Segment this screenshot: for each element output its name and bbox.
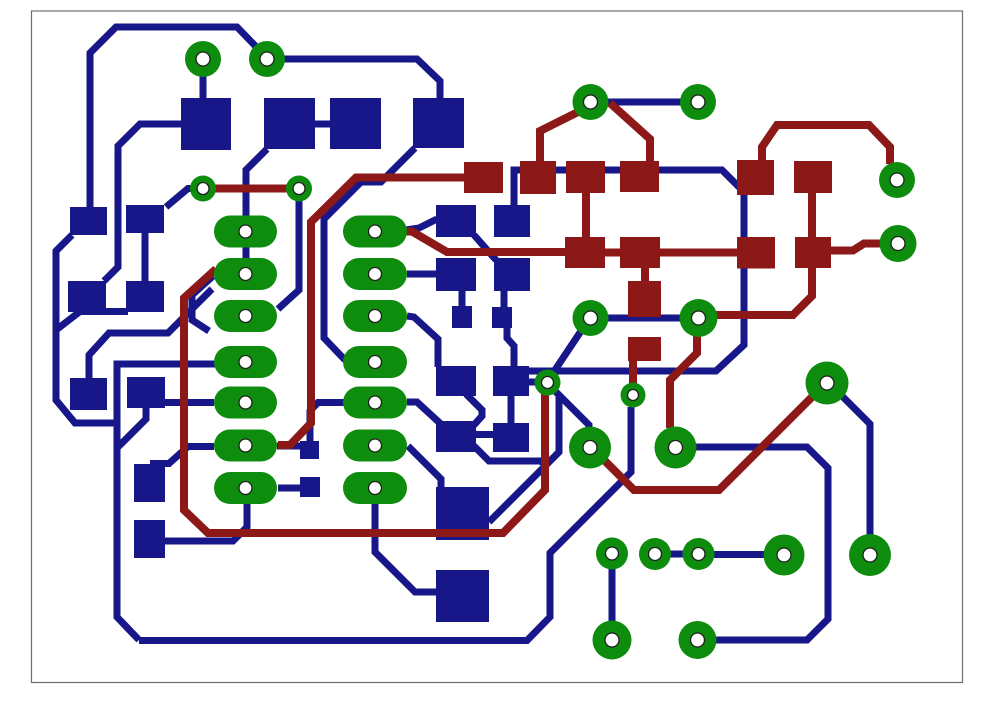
wire oval row2 to oval row3 loop xyxy=(192,276,213,331)
wire link M7-M9 xyxy=(466,394,482,426)
wire A3 stub to oval row2 xyxy=(89,289,212,378)
hole p5 xyxy=(691,633,705,647)
red pad R2B xyxy=(620,237,660,268)
hole oval L4 xyxy=(239,356,252,369)
DIP pad oval mid col row5 xyxy=(343,387,407,419)
round pad P4 xyxy=(680,84,716,120)
wire via1small to pad G bottom xyxy=(555,391,589,432)
round pad P2 xyxy=(249,41,285,77)
hole P9 xyxy=(890,173,904,187)
wire mid oval row7 to G2 xyxy=(375,501,438,592)
smd pad M10 xyxy=(493,423,529,452)
wire red R1F to R2D xyxy=(808,193,816,238)
hole oval L7 xyxy=(239,482,252,495)
hole P10 xyxy=(891,237,905,251)
via V11 xyxy=(535,370,561,396)
wire top-left bus to pad P2 xyxy=(90,27,266,209)
round pad P8 xyxy=(680,299,718,337)
DIP pad oval left col row1 xyxy=(214,216,277,248)
hole oval M4 xyxy=(369,356,382,369)
round pad G1g xyxy=(569,427,611,469)
wire oval row1 to row2 stub xyxy=(243,238,250,262)
round pad P1 xyxy=(185,41,221,77)
smd pad S3 xyxy=(330,98,381,149)
wire S2 to oval row1 xyxy=(246,149,267,225)
red pad R2C xyxy=(737,237,775,269)
round pad P3 xyxy=(573,84,609,120)
wire pad B up to pad F xyxy=(841,395,870,536)
wire p2 to p3 xyxy=(655,551,698,558)
wire M3 to m5 xyxy=(459,291,466,308)
wire link M8-M10 xyxy=(508,395,515,424)
wire mid oval row1 to M1 xyxy=(406,219,437,230)
smd pad S4 xyxy=(413,98,464,148)
wire mid oval row5 join xyxy=(310,403,344,444)
smd pad M4 xyxy=(494,258,530,291)
wire red R1C to R2A xyxy=(582,193,590,238)
smd pad C1 xyxy=(134,464,165,502)
hole P3 xyxy=(584,95,598,109)
wire B2 bottom horizontal xyxy=(56,312,128,331)
wire S1 west to A2 xyxy=(104,124,181,281)
smd pad M8 xyxy=(493,366,529,396)
wire S4 to n1 small square xyxy=(324,148,415,360)
smd pad C2 xyxy=(134,520,165,558)
smd pad B2 xyxy=(126,281,164,312)
DIP pad oval left col row2 xyxy=(214,258,277,290)
smd pad G2 xyxy=(436,570,489,622)
hole P4 xyxy=(691,95,705,109)
wire top bus y169 with verticals xyxy=(514,170,744,371)
wire via1big to via2big xyxy=(607,315,681,322)
wire pad P1 stub to S1 xyxy=(200,75,207,100)
round pad p5 xyxy=(679,621,717,659)
red rect RR1 xyxy=(628,281,661,317)
round pad P10 xyxy=(880,225,917,262)
red pad R1E xyxy=(737,160,774,195)
round pad G2g xyxy=(655,427,697,469)
round pad A xyxy=(764,535,805,576)
hole p1 xyxy=(606,547,619,560)
wire B3 stub diagonal xyxy=(117,408,146,448)
hole V11 xyxy=(542,377,554,389)
wire pad H east loop to p5 xyxy=(695,447,828,640)
smd pad n1 xyxy=(300,441,319,459)
hole V5 xyxy=(197,183,209,195)
red pad R1A xyxy=(464,162,503,193)
DIP pad oval left col row5 xyxy=(214,387,277,419)
smd pad M7 xyxy=(436,366,476,396)
smd pad G1 xyxy=(436,487,489,540)
round pad p4 xyxy=(593,621,632,660)
hole F xyxy=(820,376,834,390)
wire oval row7 to n2 xyxy=(278,485,302,492)
round pad p2 xyxy=(639,538,671,570)
red rect RR2 xyxy=(628,337,661,361)
wire pad G1g branch down to G1 right edge xyxy=(489,396,559,522)
wire bottom bus to via2small xyxy=(139,407,631,641)
wire mid oval row3 to M7 xyxy=(407,316,438,367)
wire red R2B to rect RR1 xyxy=(641,267,649,282)
DIP pad oval mid col row2 xyxy=(343,258,407,290)
wire C2 east horizontal xyxy=(165,502,247,541)
hole oval M5 xyxy=(369,396,382,409)
DIP pad oval mid col row3 xyxy=(343,300,407,332)
wire p1 to p4 xyxy=(609,569,616,622)
smd pad M1 xyxy=(436,205,476,237)
wire oval row6 right to n1 xyxy=(277,443,302,450)
DIP pad oval left col row4 xyxy=(214,346,277,378)
wire red pad P8 to pad G2g xyxy=(670,335,697,428)
hole A xyxy=(777,548,791,562)
DIP pad oval mid col row1 xyxy=(343,216,407,248)
hole oval L6 xyxy=(239,439,252,452)
wire via1big to via1small diagonal xyxy=(553,331,581,373)
wire red mid oval row1 to bus y252 xyxy=(406,232,566,253)
wire pad P3 to pad P4 xyxy=(607,99,681,106)
wire red hat R1E to pad P9 xyxy=(762,125,890,164)
hole G2g xyxy=(669,441,683,455)
smd pad M3 xyxy=(436,258,476,291)
hole B xyxy=(863,548,877,562)
wire p3 to pad A xyxy=(714,551,765,558)
DIP pad oval left col row6 xyxy=(214,430,277,462)
wire red rect RR2 to via V12 xyxy=(629,360,637,384)
hole oval M2 xyxy=(369,268,382,281)
hole V6 xyxy=(293,183,305,195)
hole oval L5 xyxy=(239,396,252,409)
wire M1 to M4 diagonal xyxy=(474,235,496,260)
via V6 xyxy=(286,176,312,202)
DIP pad oval mid col row4 xyxy=(343,346,407,378)
hole P2 xyxy=(260,52,274,66)
hole oval M1 xyxy=(369,225,382,238)
red pad R2D xyxy=(795,237,831,268)
hole P8 xyxy=(692,311,706,325)
smd pad B1 xyxy=(126,205,164,233)
wire red link R2B-R2C xyxy=(659,249,738,257)
hole oval M6 xyxy=(369,439,382,452)
smd pad A2 xyxy=(68,281,106,312)
round pad P7 xyxy=(573,300,609,336)
wire A1 down left side xyxy=(56,235,117,423)
round pad F xyxy=(806,362,849,405)
hole oval M7 xyxy=(369,482,382,495)
wire red left loop oval row2 to via V11 xyxy=(184,269,545,533)
wire red oval row6 to pad R1A xyxy=(278,178,466,446)
hole G1g xyxy=(583,441,597,455)
hole oval L2 xyxy=(239,268,252,281)
wire red via V5 to via V6 xyxy=(203,185,299,193)
via V5 xyxy=(190,176,216,202)
hole oval L3 xyxy=(239,310,252,323)
wire M9 corner to diagonal junction xyxy=(474,446,545,464)
smd pad S2 xyxy=(264,98,315,149)
wire red pad G1g to pad F xyxy=(602,397,812,490)
DIP pad oval left col row3 xyxy=(214,300,277,332)
wire red link R2A-R2B xyxy=(604,249,621,257)
wire red R2D to pad P10 xyxy=(830,244,881,251)
smd pad n2 xyxy=(300,477,320,497)
smd pad S1 xyxy=(181,98,231,150)
wire m6 to M8 xyxy=(507,328,514,367)
wire link M9-M10 xyxy=(474,431,495,438)
round pad p3 xyxy=(683,538,715,570)
round pad P9 xyxy=(879,162,915,198)
wire red pad P3 to R1D xyxy=(610,103,650,163)
red pad R1C xyxy=(566,161,605,193)
smd pad A3 xyxy=(70,378,107,410)
wire M8 stub to via1small xyxy=(529,379,536,386)
smd pad A1 xyxy=(70,207,107,235)
DIP pad oval mid col row6 xyxy=(343,430,407,462)
smd pad M2 xyxy=(494,205,530,237)
wire via V5 to B1 xyxy=(166,189,203,208)
red pad R1B xyxy=(520,161,556,194)
wire mid oval row6 to G1 xyxy=(408,446,441,488)
hole oval L1 xyxy=(239,225,252,238)
hole p4 xyxy=(605,633,619,647)
wire red pad P3 to R1B xyxy=(540,110,582,163)
wire M4 to m6 xyxy=(501,291,508,308)
wire link S2-S3 xyxy=(315,121,330,128)
wire via V6 to oval row3 xyxy=(278,189,299,309)
smd pad m6 xyxy=(492,307,512,328)
wire red R2D to pad P8 xyxy=(716,267,812,315)
hole P1 xyxy=(196,52,210,66)
wire B1 to B2 stub xyxy=(142,233,149,282)
smd pad B3 xyxy=(127,377,165,408)
hole p2 xyxy=(649,548,662,561)
via V12 xyxy=(621,383,646,408)
round pad B xyxy=(849,534,891,576)
wire pad P2 to S4 xyxy=(267,59,440,100)
red pad R1D xyxy=(620,161,659,192)
round pad p1 xyxy=(596,538,628,570)
red pad R1F xyxy=(794,161,832,193)
hole P7 xyxy=(584,311,598,325)
DIP pad oval mid col row7 xyxy=(343,472,407,504)
wire left vertical x117 with bottom bus start xyxy=(117,364,215,640)
hole oval M3 xyxy=(369,310,382,323)
wire B3 to oval row5 xyxy=(165,399,214,406)
wire mid oval row5 to M9 xyxy=(407,402,442,425)
hole V12 xyxy=(628,390,639,401)
wire oval row6 to C1 xyxy=(150,447,214,464)
hole p3 xyxy=(692,548,705,561)
DIP pad oval left col row7 xyxy=(214,472,277,504)
red pad R2A xyxy=(565,237,605,268)
wire mid oval row2 to M3 xyxy=(407,271,436,278)
smd pad m5 xyxy=(452,306,472,328)
smd pad M9 xyxy=(436,421,476,452)
